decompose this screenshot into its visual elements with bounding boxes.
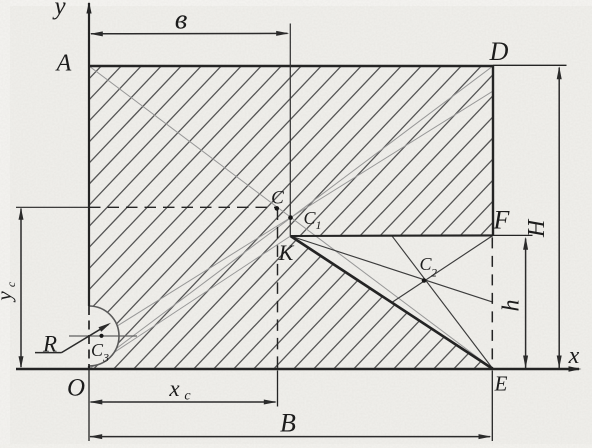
svg-text:c: c — [184, 389, 191, 404]
svg-text:2: 2 — [431, 266, 437, 280]
svg-text:B: B — [280, 409, 296, 438]
svg-text:H: H — [524, 218, 550, 238]
svg-text:3: 3 — [102, 351, 109, 365]
svg-text:F: F — [493, 206, 511, 235]
svg-text:x: x — [168, 376, 180, 401]
svg-text:c: c — [4, 281, 18, 287]
svg-text:R: R — [42, 332, 57, 357]
svg-text:x: x — [568, 343, 580, 369]
svg-text:y: y — [51, 0, 66, 20]
svg-text:D: D — [489, 37, 509, 66]
svg-text:в: в — [175, 4, 188, 36]
svg-text:h: h — [499, 300, 525, 312]
svg-text:A: A — [55, 51, 72, 77]
svg-text:K: K — [278, 240, 295, 265]
svg-text:C: C — [271, 188, 284, 209]
svg-text:O: O — [67, 375, 85, 402]
svg-text:y: y — [0, 291, 16, 303]
svg-text:E: E — [494, 372, 508, 396]
svg-text:1: 1 — [316, 218, 322, 232]
